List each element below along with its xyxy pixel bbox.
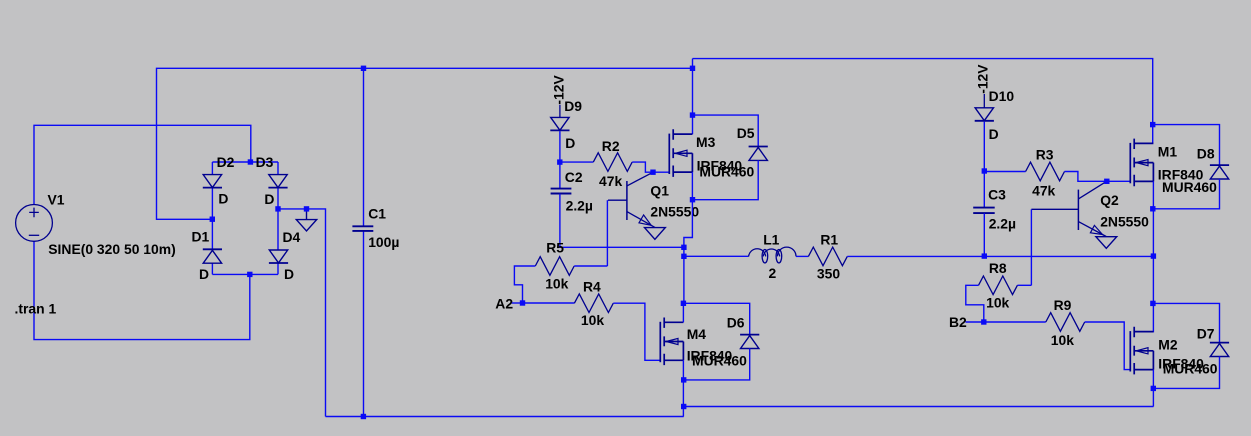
- junction bridge top: [248, 159, 253, 164]
- wire V1 bottom loop to bridge bottom: [34, 241, 250, 339]
- svg-text:M3: M3: [696, 134, 716, 150]
- svg-text:.tran 1: .tran 1: [15, 301, 57, 317]
- svg-text:D1: D1: [192, 228, 210, 244]
- wire bottom-left rail: [326, 416, 684, 418]
- svg-text:47k: 47k: [1032, 183, 1055, 199]
- svg-text:Q1: Q1: [650, 182, 669, 198]
- wire R4 right to M4 gate: [613, 303, 660, 360]
- wire D9 to node: [559, 131, 561, 188]
- wire M3 source to output column: [684, 172, 693, 303]
- resistor R9: [1046, 313, 1085, 332]
- svg-text:10k: 10k: [581, 312, 604, 328]
- junction node A2: [520, 300, 525, 305]
- svg-text:A2: A2: [495, 296, 513, 312]
- wire D8 bottom branch: [1153, 179, 1220, 209]
- wire R3 left lead: [984, 171, 1025, 173]
- wire R2 right to M3 gate: [632, 162, 669, 172]
- wire D10 stem: [983, 94, 985, 108]
- mosfet M4: [660, 318, 683, 366]
- capacitor C1: [352, 226, 373, 231]
- resistor R4: [574, 294, 613, 313]
- svg-text:M1: M1: [1158, 143, 1178, 159]
- resistor R8: [979, 276, 1018, 295]
- wire D6 top branch: [683, 303, 749, 334]
- wire bridge left column: [211, 162, 213, 274]
- wire M4 drain stub connect: [682, 303, 684, 322]
- junction M2 drain / D7 top: [1150, 301, 1155, 306]
- junction D6 bottom: [681, 377, 686, 382]
- mosfet M2: [1130, 327, 1153, 375]
- wire C3 top: [983, 171, 985, 207]
- ground flag at Q2 emitter: [1096, 237, 1117, 249]
- wire B2 tick: [966, 321, 984, 323]
- svg-text:D: D: [199, 266, 209, 282]
- wire M1 source column to M2 drain: [1152, 181, 1154, 332]
- svg-text:D: D: [989, 126, 999, 142]
- wire V1 top to bridge top: [34, 125, 251, 204]
- svg-text:D4: D4: [283, 229, 301, 245]
- wire M4 source down to bottom rail: [682, 360, 684, 416]
- wire D5 bottom branch: [693, 160, 759, 199]
- wire D7 top branch: [1153, 303, 1220, 342]
- svg-text:B2: B2: [949, 314, 967, 330]
- svg-text:2: 2: [769, 265, 777, 281]
- junction M3 source / D5 bottom: [690, 197, 695, 202]
- svg-text:M2: M2: [1158, 337, 1178, 353]
- junction C1 bottom: [361, 414, 366, 419]
- junction D5 top: [690, 112, 695, 117]
- wire D9 stem: [559, 105, 561, 118]
- wire D10 to node: [983, 122, 985, 171]
- svg-text:D5: D5: [737, 125, 755, 141]
- wire D8 top branch: [1153, 125, 1220, 166]
- wire C1 column: [363, 68, 365, 416]
- junction bridge bottom: [247, 272, 252, 277]
- svg-text:D: D: [284, 266, 294, 282]
- resistor R2: [593, 153, 632, 172]
- svg-text:MUR460: MUR460: [1162, 179, 1217, 195]
- diode D4: [269, 250, 288, 263]
- diode D2: [203, 175, 222, 188]
- svg-text:L1: L1: [763, 231, 779, 247]
- svg-text:C3: C3: [988, 187, 1006, 203]
- diode D9: [550, 117, 569, 130]
- junction R2 Q1 collector M3 gate: [650, 170, 655, 175]
- wire AC-right to bottom rail: [278, 209, 326, 417]
- junction mid rail right end: [1151, 253, 1156, 258]
- junction D9 C2 R2 node: [557, 159, 562, 164]
- svg-text:MUR460: MUR460: [1163, 361, 1218, 377]
- junction R3 Q2 collector M1 gate: [1104, 179, 1109, 184]
- wire bridge top rail: [212, 161, 278, 163]
- wire R1 to right half-bridge: [847, 255, 1153, 257]
- capacitor C2: [551, 189, 572, 194]
- resistor R1: [808, 247, 847, 266]
- wire bottom-right rail: [684, 406, 1154, 408]
- diode D5: [749, 147, 768, 161]
- svg-text:R8: R8: [989, 260, 1007, 276]
- wire M2 source to bottom rail: [1152, 370, 1154, 407]
- svg-text:MUR460: MUR460: [692, 353, 747, 369]
- svg-text:100µ: 100µ: [368, 234, 399, 250]
- junction M2 source / D7 bottom: [1151, 386, 1156, 391]
- diode D8: [1210, 165, 1229, 179]
- wire bridge bottom rail: [212, 273, 278, 275]
- wire top-left rail and AC-left feed: [157, 68, 693, 219]
- junction bridge left AC node: [210, 217, 215, 222]
- svg-text:D: D: [264, 191, 274, 207]
- junction bottom rail step: [681, 404, 686, 409]
- wire R5 left lead to A2: [514, 266, 535, 303]
- junction M4 drain / D6 top: [681, 301, 686, 306]
- svg-text:R9: R9: [1054, 297, 1072, 313]
- junction C2 tap on output column: [681, 245, 686, 250]
- wire R8 left lead to B2: [966, 285, 984, 322]
- junction bridge right AC node: [275, 206, 280, 211]
- wire D7 bottom branch: [1153, 357, 1219, 389]
- svg-text:D7: D7: [1197, 325, 1215, 341]
- svg-text:SINE(0 320 50 10m): SINE(0 320 50 10m): [48, 241, 175, 257]
- ground flag at Q1 emitter: [645, 228, 666, 240]
- svg-text:R5: R5: [546, 240, 564, 256]
- junction node B2: [981, 319, 986, 324]
- svg-text:47k: 47k: [599, 173, 622, 189]
- svg-text:D6: D6: [727, 315, 745, 331]
- svg-text:D: D: [218, 190, 228, 206]
- transistor Q1: [608, 172, 655, 227]
- svg-text:D10: D10: [989, 88, 1015, 104]
- wire Q2 base riser: [1030, 209, 1032, 285]
- wire R9 right to M2 gate: [1085, 322, 1131, 370]
- svg-text:Q2: Q2: [1100, 192, 1119, 208]
- svg-text:C1: C1: [368, 205, 386, 221]
- svg-text:D2: D2: [217, 154, 235, 170]
- resistor R3: [1026, 162, 1065, 181]
- svg-text:M4: M4: [687, 326, 707, 342]
- svg-text:D8: D8: [1197, 146, 1215, 162]
- inductor L1: [749, 247, 796, 263]
- svg-text:C2: C2: [565, 169, 583, 185]
- transistor Q2: [1031, 181, 1106, 236]
- svg-text:D9: D9: [564, 98, 582, 114]
- svg-text:10k: 10k: [1051, 332, 1074, 348]
- svg-text:2.2µ: 2.2µ: [989, 216, 1016, 232]
- svg-text:R2: R2: [602, 138, 620, 154]
- svg-text:R3: R3: [1036, 146, 1054, 162]
- svg-text:2N5550: 2N5550: [1100, 214, 1149, 230]
- svg-text:MUR460: MUR460: [699, 163, 754, 179]
- junction rail step: [690, 66, 695, 71]
- voltage source V1: [16, 205, 53, 242]
- capacitor C3: [973, 208, 995, 214]
- wire M3 drain column: [692, 59, 694, 135]
- junction C1 top: [361, 66, 366, 71]
- wire D5 top branch: [693, 115, 759, 147]
- svg-text:D: D: [565, 135, 575, 151]
- wire A2 to R4: [523, 302, 575, 304]
- wire L1 to R1: [796, 255, 808, 257]
- wire C2 bottom to output column: [560, 194, 684, 248]
- svg-text:R1: R1: [820, 231, 838, 247]
- svg-text:10k: 10k: [545, 275, 568, 291]
- wire R3 right to M1 gate: [1065, 172, 1131, 182]
- junction M1 source / D8 bottom: [1150, 206, 1155, 211]
- wire D6 bottom branch: [684, 349, 750, 380]
- wire C3 bottom to mid rail: [983, 213, 985, 256]
- junction M1 drain / D8 top: [1150, 122, 1155, 127]
- diode D7: [1210, 343, 1229, 357]
- wire bridge right column: [277, 162, 279, 274]
- svg-text:D3: D3: [256, 154, 274, 170]
- wire A2 tick: [512, 302, 523, 304]
- svg-text:R4: R4: [583, 279, 601, 295]
- wire R5 right lead: [574, 265, 607, 267]
- mosfet M3: [669, 129, 692, 177]
- svg-text:10k: 10k: [986, 295, 1009, 311]
- svg-text:2.2µ: 2.2µ: [566, 197, 593, 213]
- wire output node to L1: [684, 255, 749, 257]
- junction ground tap: [304, 206, 309, 211]
- ground flag at bridge: [296, 209, 316, 231]
- diode D1: [203, 249, 222, 263]
- svg-text:V1: V1: [48, 191, 65, 207]
- resistor R5: [535, 257, 574, 276]
- wire Q1 base riser from R5: [606, 200, 608, 266]
- diode D10: [975, 108, 994, 121]
- junction output to L1: [681, 254, 686, 259]
- junction C3 on mid rail: [982, 253, 987, 258]
- wire R8 right lead: [1017, 284, 1031, 286]
- junction D10 C3 R3 node: [982, 168, 987, 173]
- wire R2 left lead: [560, 161, 593, 163]
- wire top step at x=692.5 and right-top rail: [693, 59, 1153, 144]
- mosfet M1: [1130, 139, 1153, 187]
- diode D6: [740, 335, 759, 349]
- wire B2 to R9: [984, 321, 1046, 323]
- diode D3: [268, 175, 287, 188]
- svg-text:350: 350: [817, 266, 840, 282]
